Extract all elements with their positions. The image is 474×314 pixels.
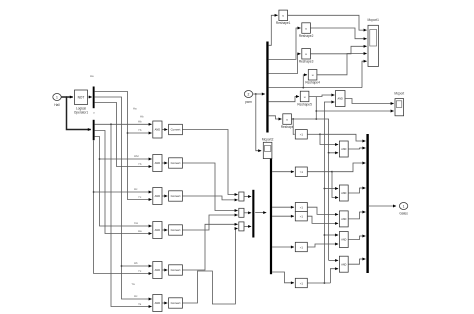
svg-text:Ha: Ha bbox=[90, 74, 94, 78]
svg-text:Convert: Convert bbox=[171, 228, 181, 232]
svg-text:Convert: Convert bbox=[171, 194, 181, 198]
svg-text:Hb: Hb bbox=[140, 115, 144, 119]
svg-text:Cw: Cw bbox=[134, 221, 139, 225]
svg-text:Reshape1: Reshape1 bbox=[276, 21, 291, 25]
svg-text:Convert: Convert bbox=[171, 161, 181, 165]
svg-text:1: 1 bbox=[56, 95, 58, 99]
svg-text:AND: AND bbox=[341, 263, 346, 266]
svg-text:Reshape5: Reshape5 bbox=[297, 102, 312, 106]
svg-text:AND: AND bbox=[341, 192, 346, 195]
svg-text:Hall: Hall bbox=[54, 103, 60, 107]
svg-text:AND: AND bbox=[155, 268, 161, 272]
svg-text:>1: >1 bbox=[300, 133, 304, 137]
svg-text:AND: AND bbox=[155, 301, 161, 305]
svg-text:Yc: Yc bbox=[138, 269, 142, 273]
svg-text:Operator1: Operator1 bbox=[74, 111, 89, 115]
svg-text:Reshape4: Reshape4 bbox=[305, 81, 320, 85]
svg-text:Mcport: Mcport bbox=[394, 92, 404, 96]
svg-text:Convert: Convert bbox=[171, 268, 181, 272]
svg-text:1: 1 bbox=[403, 204, 405, 208]
svg-text:Mcport1: Mcport1 bbox=[367, 18, 379, 22]
svg-text:>1: >1 bbox=[300, 170, 304, 174]
svg-text:Hc: Hc bbox=[134, 187, 138, 191]
svg-text:Reshape3: Reshape3 bbox=[299, 60, 314, 64]
svg-text:Hb: Hb bbox=[134, 261, 138, 265]
svg-text:AND: AND bbox=[155, 161, 161, 165]
svg-text:>1: >1 bbox=[300, 215, 304, 219]
svg-text:Convert: Convert bbox=[171, 128, 181, 132]
svg-text:Ha: Ha bbox=[133, 107, 137, 111]
svg-text:Yc: Yc bbox=[138, 195, 142, 199]
svg-text:Ya: Ya bbox=[138, 302, 142, 306]
svg-text:AND: AND bbox=[155, 194, 161, 198]
svg-text:Gates: Gates bbox=[399, 212, 408, 216]
svg-text:AND: AND bbox=[341, 218, 346, 221]
svg-text:Hbc: Hbc bbox=[134, 154, 140, 158]
svg-text:Yb: Yb bbox=[138, 128, 142, 132]
svg-text:AND: AND bbox=[338, 98, 343, 101]
svg-text:>1: >1 bbox=[300, 245, 304, 249]
svg-text:Reshape2: Reshape2 bbox=[299, 34, 314, 38]
svg-text:Convert: Convert bbox=[171, 301, 181, 305]
svg-text:Hc: Hc bbox=[134, 294, 138, 298]
svg-text:Ha: Ha bbox=[138, 229, 142, 233]
svg-text:AND: AND bbox=[341, 239, 346, 242]
svg-text:2: 2 bbox=[248, 92, 250, 96]
svg-text:AND: AND bbox=[341, 148, 346, 151]
svg-text:NOT: NOT bbox=[78, 95, 85, 99]
svg-text:AND: AND bbox=[155, 228, 161, 232]
svg-text:Ya: Ya bbox=[132, 282, 136, 286]
svg-text:Reshape: Reshape bbox=[281, 125, 294, 129]
svg-text:Hb: Hb bbox=[138, 120, 142, 124]
svg-text:>1: >1 bbox=[300, 206, 304, 210]
svg-text:AND: AND bbox=[155, 128, 161, 132]
svg-text:u: u bbox=[93, 111, 95, 115]
svg-text:Mcport2: Mcport2 bbox=[262, 138, 274, 142]
svg-text:pwm: pwm bbox=[245, 100, 252, 104]
svg-text:>1: >1 bbox=[300, 281, 304, 285]
svg-text:Yb: Yb bbox=[138, 162, 142, 166]
